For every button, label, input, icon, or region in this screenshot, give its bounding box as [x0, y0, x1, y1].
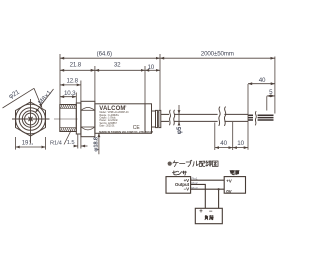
- dim line 12.8: [60, 84, 81, 86]
- dim 19 extension lines: [15, 137, 17, 150]
- svg-text:−: −: [209, 209, 213, 215]
- leader phi21: [3, 88, 35, 108]
- thread root line top: [60, 107, 77, 109]
- dim phi5 line: [178, 105, 180, 125]
- dim 1.5 arrows: [76, 145, 78, 147]
- svg-text:φ5: φ5: [177, 126, 183, 134]
- hex facet line top: [81, 109, 95, 111]
- center mark star: [28, 116, 34, 122]
- load label kanji: [205, 215, 213, 219]
- svg-text:0V: 0V: [226, 189, 231, 194]
- body label VALCOM: [99, 105, 153, 135]
- hex nut side view: [81, 101, 95, 136]
- dim line 5: [267, 95, 275, 97]
- svg-text:Pin1: Pin1: [192, 177, 198, 181]
- svg-text:10: 10: [148, 64, 155, 71]
- wire +V: [191, 179, 225, 181]
- dim line 64.6: [60, 57, 160, 59]
- svg-text:5: 5: [269, 89, 273, 96]
- wire Output: [191, 184, 206, 208]
- port centerline: [54, 118, 78, 120]
- svg-text:Pin3: Pin3: [192, 186, 198, 190]
- dim 1.5 extensions: [77, 135, 79, 149]
- extension x274.9: [274, 57, 276, 114]
- svg-text:10.3: 10.3: [64, 90, 76, 97]
- load box: [195, 208, 222, 223]
- thread hatch bottom: [61, 128, 76, 132]
- gland ring 2: [159, 110, 161, 127]
- svg-text:−V: −V: [184, 186, 190, 191]
- sensor box: [166, 177, 191, 194]
- dim line 10: [145, 69, 160, 71]
- svg-text:21.8: 21.8: [70, 62, 82, 69]
- collar 1.5: [76, 103, 81, 134]
- gland ring 1: [156, 110, 158, 127]
- leader M8x1: [35, 89, 53, 113]
- diagram title bullet: [168, 162, 172, 166]
- circle thread crest: [22, 111, 38, 127]
- thread root line bottom: [60, 127, 77, 129]
- extension x80.9: [80, 81, 82, 102]
- gland ring gap: [158, 112, 159, 126]
- dim line 21.8: [60, 69, 95, 71]
- box texts: [175, 178, 232, 215]
- svg-text:MADE IN TAIWAN VALCOM CO.,LTD: MADE IN TAIWAN VALCOM CO.,LTD. 8131.7: [99, 130, 153, 134]
- svg-text:+: +: [199, 209, 203, 215]
- svg-text:R1/4: R1/4: [50, 140, 63, 146]
- circle washer face: [19, 108, 42, 131]
- sensor label kanji: [173, 171, 187, 175]
- wiring diagram: [166, 177, 246, 224]
- dim 19 line: [16, 146, 46, 148]
- dimension texts: [8, 51, 273, 152]
- lower extension x214.8: [214, 123, 216, 151]
- svg-text:φ18.8: φ18.8: [93, 136, 99, 151]
- cable segment 3: [224, 113, 248, 115]
- svg-text:32: 32: [114, 62, 121, 69]
- wire load minus: [218, 189, 220, 208]
- extension x160: [159, 54, 161, 110]
- extension x266.8: [266, 96, 268, 110]
- hex chamfer arc top: [81, 107, 94, 110]
- svg-text:Power : 12-24Vdc: Power : 12-24Vdc: [100, 119, 119, 122]
- circle phi21 chamfer: [16, 104, 46, 134]
- dim 40 upper extension x248: [247, 84, 249, 150]
- cable break 1: [169, 110, 170, 125]
- cable break 2: [219, 107, 220, 126]
- junction dot: [218, 188, 220, 190]
- circle thread root: [25, 113, 37, 125]
- thread hatch top: [61, 105, 76, 109]
- svg-text:Model : VPRF-A4-200KP-4C: Model : VPRF-A4-200KP-4C: [100, 111, 130, 114]
- cable segment 1 top: [161, 113, 169, 115]
- svg-text:CE: CE: [133, 125, 141, 131]
- dim line 40 lower: [215, 147, 233, 149]
- svg-text:VALCOM: VALCOM: [99, 106, 125, 112]
- dim line 32: [95, 69, 145, 71]
- stripped wires: [248, 115, 274, 120]
- svg-text:Output : 1-5Vdc: Output : 1-5Vdc: [100, 117, 117, 120]
- body cylinder: [95, 104, 152, 134]
- svg-text:12.8: 12.8: [66, 77, 78, 84]
- dim line 10.3: [60, 96, 76, 98]
- hex nut front view hexagon: [16, 102, 46, 136]
- power box: [224, 177, 245, 194]
- front view crosshair horizontal: [12, 118, 50, 120]
- svg-text:Pin2: Pin2: [192, 181, 198, 185]
- svg-text:10: 10: [237, 140, 244, 147]
- wire labels: [192, 177, 198, 190]
- dim line 40 upper: [248, 83, 275, 85]
- dim phi18.8 leader: [98, 133, 100, 154]
- dim (64.6) extension left: [59, 54, 61, 106]
- hex facet line bottom: [81, 126, 95, 128]
- wire break squiggle: [255, 111, 256, 125]
- power label kanji: [230, 170, 239, 174]
- threaded port R1/4: [60, 105, 77, 132]
- dim line 2000: [160, 57, 275, 59]
- svg-text:40: 40: [259, 77, 266, 84]
- diagram title text kanji "cable wiring diagram": [173, 160, 218, 166]
- lower extension x232.7: [232, 122, 234, 150]
- front view crosshair vertical: [30, 99, 32, 144]
- svg-text:+V: +V: [226, 178, 232, 183]
- extension x76.3: [75, 93, 77, 104]
- svg-text:Ser.No. 1234567: Ser.No. 1234567: [100, 122, 118, 125]
- svg-text:M8×1: M8×1: [37, 89, 53, 106]
- svg-text:Date : 2020.01: Date : 2020.01: [100, 124, 116, 127]
- cable gland neck: [152, 111, 156, 127]
- svg-text:40: 40: [220, 140, 227, 147]
- svg-text:(64.6): (64.6): [97, 51, 112, 58]
- svg-text:1.5: 1.5: [67, 140, 75, 146]
- hex chamfer arc bottom: [81, 127, 94, 130]
- svg-text:φ21: φ21: [8, 88, 21, 100]
- leader R1/4: [64, 131, 71, 145]
- cable segment 2: [174, 113, 217, 115]
- extension x145: [144, 66, 146, 104]
- svg-text:2000±50mm: 2000±50mm: [201, 51, 234, 58]
- svg-text:®: ®: [125, 105, 127, 109]
- dim line 10 lower: [233, 147, 248, 149]
- wire break gap: [253, 114, 258, 123]
- body seam: [144, 104, 146, 134]
- svg-text:-0.3: -0.3: [29, 142, 34, 146]
- extension x94.9: [94, 66, 96, 102]
- wire -V: [191, 188, 225, 190]
